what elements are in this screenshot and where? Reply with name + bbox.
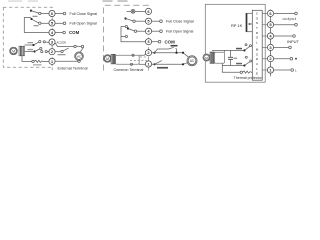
terminal A3 <box>267 44 273 50</box>
K1 spare contact <box>245 44 247 46</box>
open switch contact a <box>74 45 76 47</box>
contact point <box>160 30 163 33</box>
motor winding block (vertical bars) <box>210 52 214 63</box>
junction dot near source <box>182 63 184 65</box>
wire terminal 2 to AC source <box>152 53 189 57</box>
svg-text:Common Terminal: Common Terminal <box>114 68 144 72</box>
wire terminal 1 to AC source <box>152 63 188 65</box>
direction switch S2 pivot <box>33 50 35 52</box>
actuator enclosure (dashed box) <box>3 7 52 67</box>
switch S1 contact a <box>39 41 41 43</box>
K2 contact <box>250 60 252 62</box>
close switch contact <box>61 50 63 52</box>
capacitor C1 plates <box>228 57 233 59</box>
wire K1 to module <box>250 45 253 47</box>
actuator enclosure (solid box) <box>205 4 265 82</box>
end contact <box>289 46 292 49</box>
terminal 6 <box>49 10 55 16</box>
terminal 5 <box>145 18 151 24</box>
contact point <box>160 20 163 23</box>
motor M3 <box>203 54 210 61</box>
thermal protector TP2 contact <box>240 71 242 73</box>
svg-text:O: O <box>256 36 259 40</box>
svg-text:Full Open Signal: Full Open Signal <box>70 21 97 25</box>
svg-text:L: L <box>295 69 297 73</box>
LS1 contact <box>39 12 41 14</box>
LS1 blade <box>31 11 39 14</box>
wire contact to terminal 2 <box>47 51 49 53</box>
junction dot terminal 1 <box>153 63 155 65</box>
K2 tiny label <box>236 63 242 65</box>
wire K2 to module <box>251 60 253 62</box>
LS2 blade <box>32 19 39 23</box>
S1 tiny label <box>28 42 34 43</box>
wire housing top to terminal 2 <box>139 54 146 55</box>
junction dot <box>175 52 177 54</box>
bracket contact c1 <box>125 25 127 27</box>
LS2 tiny label <box>34 25 39 26</box>
svg-text:E: E <box>256 72 258 76</box>
capacitor C1 bottom lead <box>230 59 232 65</box>
thermal protector TP2 element <box>243 71 253 73</box>
switch S1 blade <box>34 42 39 45</box>
wire LS2 to terminal 5 <box>41 22 49 24</box>
wire terminal 5 to signal contact <box>152 20 160 22</box>
wire: winding to direction switch S2 <box>25 51 34 53</box>
wire winding to switch K2 <box>222 65 244 67</box>
wire terminal 6 to signal contact <box>55 13 63 15</box>
svg-text:M: M <box>256 48 259 52</box>
wire housing bottom to terminal 1 <box>139 63 145 65</box>
end contact <box>295 23 298 26</box>
pill to wire stub <box>224 50 226 52</box>
wire switch to AC source top <box>80 47 83 52</box>
K2 pivot dot <box>243 64 245 66</box>
K2 spare contact <box>245 56 247 58</box>
switch S1 contact b <box>43 41 45 43</box>
actuator enclosure (dashed box, open bottom) <box>104 5 149 70</box>
wire terminal 3 to open switch <box>55 43 74 47</box>
svg-text:C: C <box>256 12 259 16</box>
K1 contact <box>249 45 251 47</box>
terminal 1 <box>145 61 151 67</box>
thermal protector TP1 contact <box>32 60 34 62</box>
bypass switch branch <box>155 48 177 52</box>
pot bottom lead <box>247 31 253 33</box>
svg-text:O: O <box>256 52 259 56</box>
switch S2 blade <box>35 49 41 52</box>
common wire of limit switches to terminal 4 <box>24 18 49 33</box>
wire terminal 3 to COM contact <box>152 41 159 43</box>
wire terminal 2 to close switch <box>55 51 61 53</box>
contact point <box>63 12 66 15</box>
control module box <box>252 10 262 80</box>
wire terminal A5 out <box>274 24 295 26</box>
AC source G1 <box>75 52 84 61</box>
terminal 6 <box>145 8 151 14</box>
potentiometer RP body <box>246 13 248 32</box>
junction dot near source <box>182 52 184 54</box>
K2 blade <box>245 62 251 66</box>
svg-text:M: M <box>205 56 208 60</box>
limit switch LS4 pivot <box>127 27 129 29</box>
svg-text:R: R <box>256 31 259 35</box>
terminal A1 <box>267 67 273 73</box>
wire winding to switch K1 <box>212 49 244 51</box>
indicator lamp (circle-cross) <box>131 10 135 14</box>
svg-text:AC220V: AC220V <box>57 41 67 45</box>
wire terminal A4 out <box>274 35 293 37</box>
open switch contact b <box>81 45 83 47</box>
svg-text:INPUT: INPUT <box>287 39 300 44</box>
LS1 tiny label <box>33 16 38 17</box>
terminal A2 <box>267 56 273 62</box>
K1 blade <box>245 46 250 50</box>
AC source G2 <box>187 56 197 66</box>
end contact <box>295 12 298 15</box>
wire terminal 5 to signal contact <box>55 22 63 24</box>
pot wiper <box>248 23 252 25</box>
svg-text:L: L <box>256 40 258 44</box>
TP1 tiny label <box>33 64 42 65</box>
wire contact to terminal 3 <box>45 41 49 43</box>
wire to thermal protector <box>222 71 240 73</box>
capacitor housing (pill box) <box>116 55 140 64</box>
LS3 blade <box>126 19 133 21</box>
pot top lead <box>247 12 253 14</box>
motor winding block (vertical bars) <box>19 46 25 56</box>
external terminal bracket tick <box>51 67 53 70</box>
svg-text:Full Close Signal: Full Close Signal <box>70 12 98 16</box>
LS2 contact <box>39 22 41 24</box>
svg-text:M: M <box>12 49 15 53</box>
terminal A5 <box>267 22 273 28</box>
wire LS4 to terminal 4 <box>137 30 146 32</box>
contact point <box>63 22 66 25</box>
svg-text:N: N <box>256 21 258 25</box>
svg-text:Full Open Signal: Full Open Signal <box>166 30 193 34</box>
end contact <box>290 57 293 60</box>
wire terminal 1 to AC source bottom <box>55 60 78 62</box>
terminal 4 <box>145 28 151 34</box>
contact point <box>158 40 161 43</box>
svg-text:output: output <box>283 16 297 21</box>
terminal 5 <box>49 20 55 26</box>
bypass tiny label <box>171 45 178 47</box>
end contact <box>293 35 296 38</box>
control switch tiny label <box>157 67 168 69</box>
contact at AC bottom <box>78 60 80 62</box>
LS4 blade <box>128 29 134 31</box>
common bracket wire to terminal 3 <box>121 27 145 42</box>
switch S2 contact a <box>41 51 43 53</box>
terminal 3 <box>145 39 151 45</box>
motor M1 <box>10 47 18 55</box>
svg-text:L: L <box>256 67 258 71</box>
open switch blade <box>76 45 81 47</box>
module to panel terminal stubs <box>262 13 267 70</box>
wire terminal A6 out <box>274 12 295 14</box>
svg-text:M: M <box>106 57 109 61</box>
S2 tiny label <box>28 49 34 50</box>
terminal 2 <box>145 50 151 56</box>
K1 tiny label <box>236 48 242 50</box>
LS3 contact <box>133 20 135 22</box>
wire LS1 to terminal 6 <box>41 13 49 15</box>
limit switch LS3 pivot <box>124 17 126 19</box>
terminal A6 <box>267 10 273 16</box>
svg-text:AC: AC <box>190 59 195 63</box>
wire terminal A3 out <box>274 46 289 48</box>
switch S2 contact b <box>45 51 47 53</box>
limit switch LS1 (full close) pivot <box>30 10 32 12</box>
bracket contact c2 <box>125 35 127 37</box>
control module vertical caption <box>256 12 259 76</box>
svg-text:O: O <box>256 16 259 20</box>
close switch blade <box>63 48 69 51</box>
bottom edge contact <box>130 63 132 65</box>
svg-text:AC: AC <box>77 55 82 59</box>
terminal strip bus <box>270 9 272 76</box>
K1 pivot dot <box>243 49 245 51</box>
terminal A4 <box>267 33 273 39</box>
top edge contact <box>132 54 134 56</box>
svg-text:COM: COM <box>69 30 80 35</box>
close switch tiny label <box>58 54 66 55</box>
wire lamp to terminal 6 <box>127 10 146 12</box>
vertical bus below housing <box>221 63 223 72</box>
terminal 3 <box>49 39 55 45</box>
polarity dot <box>295 58 297 60</box>
wire terminal 4 to signal contact <box>152 30 160 32</box>
terminal 4 <box>49 29 55 35</box>
wire: winding bottom to thermal protector <box>22 56 32 62</box>
svg-text:COM: COM <box>165 39 176 44</box>
end contact <box>291 69 294 72</box>
motor winding block (vertical bars) <box>111 54 116 64</box>
switch S2 raised contact <box>40 47 42 49</box>
capacitor C1 top lead <box>230 50 232 57</box>
LS4 contact <box>134 30 136 32</box>
thermal protector TP1 element <box>34 60 49 62</box>
svg-text:RP 1K: RP 1K <box>231 23 243 28</box>
bypass switch blade <box>169 47 174 49</box>
motor M2 <box>104 55 112 63</box>
direction switch S1 pivot <box>32 44 34 46</box>
svg-text:Thermal protector: Thermal protector <box>234 76 263 80</box>
svg-text:T: T <box>256 26 258 30</box>
wire: winding to direction switch S1 <box>25 44 33 46</box>
capacitor housing (pill box) <box>214 52 224 63</box>
svg-text:External Terminal: External Terminal <box>58 66 88 71</box>
svg-text:Full Close Signal: Full Close Signal <box>166 20 194 24</box>
cropped header remnants <box>8 0 128 2</box>
svg-text:D: D <box>256 57 259 61</box>
wire terminal 4 to COM contact <box>55 32 63 34</box>
C1 tiny label <box>234 58 238 59</box>
control switch blade <box>155 61 162 65</box>
junction dot terminal 2 <box>153 52 155 54</box>
contact point <box>63 31 66 34</box>
wire terminal A1 out <box>274 69 291 71</box>
limit switch LS2 (full open) pivot <box>30 18 32 20</box>
terminal 1 <box>49 58 55 64</box>
wire LS3 to terminal 5 <box>135 20 145 22</box>
svg-text:U: U <box>256 62 258 66</box>
terminal 2 <box>49 49 55 55</box>
enclosure inner dashed partition <box>130 57 147 60</box>
wire terminal A2 out <box>274 58 290 60</box>
